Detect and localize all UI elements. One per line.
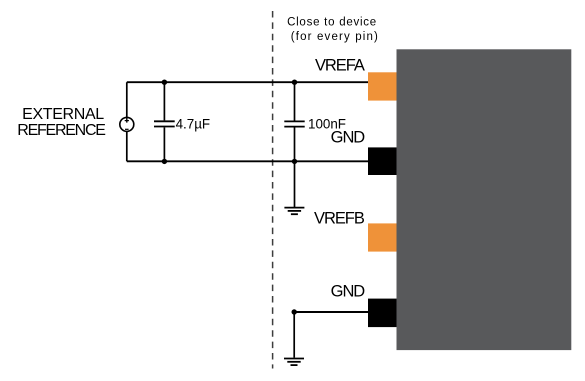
svg-text:4.7µF: 4.7µF (176, 116, 211, 131)
wire: top rail from source to VREFA pin (127, 81, 368, 83)
svg-text:GND: GND (331, 283, 366, 301)
pin VREFA (orange) (368, 72, 397, 100)
svg-text:REFERENCE: REFERENCE (17, 122, 105, 139)
label: EXTERNAL REFERENCE (17, 106, 105, 139)
svg-text:VREFA: VREFA (315, 57, 365, 75)
svg-text:VREFB: VREFB (314, 210, 365, 228)
dashed boundary line (close-to-device separator) (272, 11, 274, 369)
svg-text:GND: GND (331, 129, 366, 147)
capacitor C1 4.7uF: plates (154, 121, 175, 126)
capacitor C2 100nF: plates (284, 121, 304, 126)
junction dot: C1 bottom (162, 159, 167, 164)
ground symbol G1 (284, 208, 304, 215)
ground symbol G2 (284, 359, 304, 366)
junction dot: C1 top (162, 80, 167, 85)
pin GND bottom (black) (368, 299, 397, 328)
label: Close to device (for every pin) (287, 16, 379, 43)
junction dot: C2 bottom (292, 159, 297, 164)
svg-text:Close to device: Close to device (287, 16, 377, 28)
pin VREFB (orange) (368, 223, 397, 251)
junction dot: C2 top (292, 80, 297, 85)
voltage source V1 (external reference) (120, 117, 134, 131)
wire: bottom rail from source to GND pin (127, 160, 368, 162)
pin GND top (black) (368, 147, 397, 175)
wire: GND2 vertical drop to ground (293, 312, 295, 358)
capacitor C1 4.7uF: branch wires (163, 82, 165, 120)
junction dot: GND2 corner (292, 309, 297, 314)
svg-text:EXTERNAL: EXTERNAL (22, 106, 104, 123)
capacitor C2 100nF: branch wires (294, 82, 296, 120)
wire: GND2 horizontal to pin (294, 311, 368, 313)
device body (IC) (397, 49, 572, 350)
svg-text:(for every pin): (for every pin) (291, 31, 379, 43)
wire: source branch vertical (126, 82, 128, 161)
